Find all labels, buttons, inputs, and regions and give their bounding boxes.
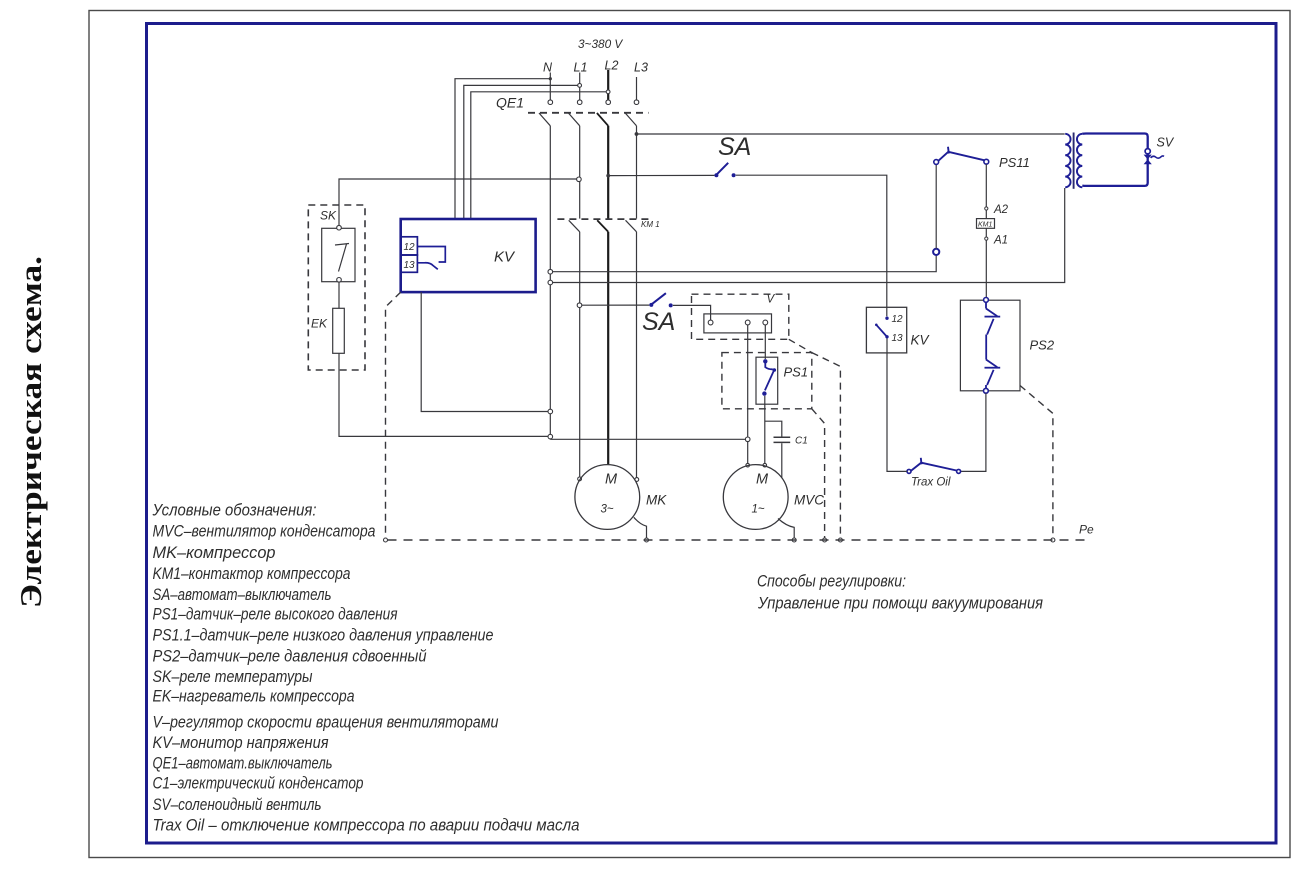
- regulator V label: [767, 294, 776, 306]
- wire feed to KV from L1: [464, 84, 582, 220]
- contact KV body right: [866, 307, 906, 353]
- node L3 label: [634, 61, 648, 75]
- svg-text:PS11: PS11: [999, 155, 1030, 170]
- dashed boundary PS1 top corner to ground bus: [812, 353, 843, 542]
- pressure switch PS2 label: [1030, 338, 1055, 353]
- switch SA upper: [714, 163, 735, 177]
- wire L3 to transformer primary: [637, 133, 1065, 135]
- relay SK dashed enclosure: [308, 205, 365, 370]
- legend line PS2: [153, 648, 427, 666]
- wire A1 to PS2: [985, 240, 987, 297]
- svg-text:SV: SV: [1157, 136, 1175, 150]
- contact KV pin 13: [885, 333, 903, 344]
- contactor KM1 trip link dashed: [557, 218, 652, 220]
- legend line SV: [153, 796, 322, 814]
- motor MVC phases label: [751, 504, 764, 516]
- node junction N and EK line: [548, 434, 553, 439]
- svg-text:L1: L1: [574, 61, 588, 75]
- switch SA lower: [649, 293, 672, 307]
- wire L2 vertical upper (bold): [607, 126, 609, 219]
- node junction L1 to SA2 feed: [577, 303, 582, 308]
- svg-text:13: 13: [404, 260, 416, 271]
- wire capacitor branch: [765, 421, 782, 436]
- wire L2 input stub (bold): [607, 70, 609, 100]
- page title vertical text: [13, 256, 48, 608]
- node N label: [543, 61, 553, 75]
- svg-text:MK: MK: [646, 493, 667, 508]
- monitor KV terminal box 12: [401, 237, 418, 255]
- wire SA to KV monitor contact: [736, 175, 887, 316]
- legend line QE1: [153, 755, 333, 773]
- breaker QE1 label: [496, 95, 524, 111]
- regulator V body: [704, 314, 772, 333]
- legend line Trax Oil: [153, 817, 580, 835]
- node junction N control line 1: [548, 269, 553, 274]
- legend heading: [152, 502, 317, 520]
- svg-text:L2: L2: [605, 59, 619, 73]
- legend line SK: [153, 668, 313, 686]
- node junction L3 to control feed: [635, 132, 639, 136]
- pressure switch PS11: [934, 147, 989, 165]
- svg-text:PS2: PS2: [1030, 338, 1055, 353]
- wire L3 vertical upper: [636, 126, 638, 219]
- svg-text:M: M: [605, 472, 618, 488]
- svg-text:1~: 1~: [751, 504, 764, 516]
- svg-text:EK–нагреватель компрессора: EK–нагреватель компрессора: [153, 688, 355, 706]
- relay SK body: [322, 228, 355, 281]
- legend line PS1: [153, 606, 398, 624]
- legend line V: [153, 714, 499, 732]
- wire feed to KV from N: [455, 79, 550, 219]
- heater EK body: [333, 308, 345, 353]
- relay SK label: [320, 209, 337, 223]
- svg-text:Электрическая схема.: Электрическая схема.: [13, 256, 48, 608]
- svg-text:SA: SA: [718, 133, 751, 161]
- svg-text:MVC–вентилятор конденсатора: MVC–вентилятор конденсатора: [153, 523, 376, 541]
- ground bus Pe dashed: [388, 539, 1091, 541]
- svg-text:Trax Oil – отключение компресс: Trax Oil – отключение компрессора по ава…: [153, 817, 580, 835]
- legend line MVC: [153, 523, 376, 541]
- svg-text:PS1–датчик–реле высокого давле: PS1–датчик–реле высокого давления: [153, 606, 398, 624]
- wire N input stub: [549, 73, 552, 100]
- monitor KV label: [494, 249, 516, 266]
- node L1 label: [574, 61, 588, 75]
- legend line KM1: [153, 565, 351, 583]
- wire feed to KV from L2: [471, 90, 610, 219]
- motor MVC letter M: [756, 472, 769, 488]
- svg-text:M: M: [756, 472, 769, 488]
- wire V terminal2 to junction: [747, 325, 749, 437]
- svg-text:QE1: QE1: [496, 95, 524, 111]
- svg-text:Trax Oil: Trax Oil: [911, 477, 951, 489]
- pressure switch PS1 label: [784, 365, 809, 380]
- motor MVC circle: [723, 465, 788, 530]
- legend line MK: [153, 544, 276, 562]
- pressure switch PS2 terminals: [984, 298, 989, 394]
- wire SA lower to regulator V: [673, 305, 711, 320]
- capacitor C1 label: [795, 436, 808, 447]
- svg-text:KM1: KM1: [978, 222, 993, 229]
- pressure switch PS1 body: [756, 357, 778, 404]
- wire N feed to motor MVC junction: [550, 438, 745, 440]
- wire L1 vertical lower: [578, 232, 582, 481]
- note text Sposoby: [757, 573, 906, 591]
- wire control line 1 to PS11: [553, 255, 937, 272]
- heater EK label: [311, 317, 328, 331]
- pin A2 label: [993, 204, 1009, 216]
- monitor KV body: [401, 219, 536, 292]
- wire L2 vertical lower (bold): [607, 232, 609, 465]
- svg-text:N: N: [543, 61, 553, 75]
- solenoid valve SV symbol: [1144, 149, 1164, 165]
- relay SK terminals: [337, 225, 342, 282]
- breaker QE1 terminals: [548, 100, 639, 105]
- wire capacitor to motor MVC: [781, 443, 783, 478]
- wire V terminal3 to PS1: [764, 325, 766, 359]
- wire control line 2 to transformer: [553, 188, 1065, 283]
- wire EK down to N junction: [339, 353, 548, 436]
- switch SA upper label: [718, 133, 751, 161]
- wire SK branch to L1: [339, 177, 581, 225]
- dashed boundary PS1 bottom corner to ground bus: [812, 409, 827, 542]
- pressure switch PS1 contact: [762, 359, 776, 396]
- ground bus Pe label: [1079, 523, 1094, 537]
- regulator V terminal 2: [745, 320, 750, 325]
- connector bold circle on PS11 branch: [933, 249, 939, 255]
- wire Trax Oil to KV contact 13: [887, 339, 907, 472]
- svg-text:C1–электрический конденсатор: C1–электрический конденсатор: [153, 775, 364, 793]
- svg-text:SK: SK: [320, 209, 337, 223]
- svg-text:L3: L3: [634, 61, 648, 75]
- svg-text:A1: A1: [993, 235, 1008, 247]
- wire PS2 to Trax Oil: [961, 393, 986, 471]
- breaker QE1 pole blades: [539, 113, 637, 126]
- regulator V terminal 3: [763, 320, 768, 325]
- wire SK to EK: [338, 282, 340, 308]
- svg-text:V: V: [767, 294, 776, 306]
- node L2 label: [605, 59, 619, 73]
- wire junction to motor MVC: [746, 442, 750, 467]
- contactor KM1 pole blades: [569, 220, 637, 232]
- switch SA lower label: [642, 308, 675, 336]
- svg-text:EK: EK: [311, 317, 328, 331]
- monitor KV internal contact blade: [417, 263, 437, 270]
- monitor KV terminal box 13: [401, 255, 418, 272]
- wire L3 vertical lower: [635, 232, 639, 482]
- dashed boundary KV to ground bus: [384, 292, 401, 542]
- wire connector to PS11: [935, 164, 937, 248]
- svg-text:V–регулятор скорости вращения: V–регулятор скорости вращения вентилятор…: [153, 714, 499, 732]
- breaker QE1 trip link dashed: [528, 112, 649, 114]
- wire secondary loop to SV: [1082, 134, 1147, 186]
- svg-text:PS2–датчик–реле давления сдвое: PS2–датчик–реле давления сдвоенный: [153, 648, 427, 666]
- svg-text:SA: SA: [642, 308, 675, 336]
- svg-text:KV: KV: [494, 249, 516, 266]
- wire A2 to coil: [985, 210, 987, 218]
- motor MK label: [646, 493, 667, 508]
- svg-text:3~380 V: 3~380 V: [578, 37, 623, 51]
- svg-text:12: 12: [404, 242, 416, 253]
- coil KM1 body: [977, 219, 995, 229]
- legend line EK: [153, 688, 355, 706]
- wire coil to A1: [985, 228, 988, 240]
- capacitor C1: [774, 437, 791, 442]
- note text Upravlenie: [757, 595, 1043, 613]
- transformer primary coil: [1065, 134, 1070, 187]
- regulator V terminal 1: [708, 320, 713, 325]
- contact KV right label: [911, 333, 931, 348]
- solenoid valve SV label: [1157, 136, 1175, 150]
- svg-text:3~: 3~: [600, 504, 613, 516]
- motor MK circle: [575, 465, 640, 530]
- svg-text:Управление при помощи вакуумир: Управление при помощи вакуумирования: [757, 595, 1043, 613]
- svg-text:SA–автомат–выключатель: SA–автомат–выключатель: [153, 586, 332, 604]
- svg-text:MK–компрессор: MK–компрессор: [153, 544, 276, 562]
- relay SK contact: [335, 244, 349, 272]
- svg-text:Pe: Pe: [1079, 523, 1094, 537]
- wire PS1 to motor MVC: [763, 396, 767, 467]
- svg-text:PS1: PS1: [784, 365, 809, 380]
- transformer core: [1073, 133, 1075, 189]
- node junction L2 to SA feed: [606, 174, 610, 178]
- wire L3 input stub: [636, 77, 638, 100]
- pressure switch PS1 dashed enclosure: [722, 353, 812, 409]
- svg-text:Условные обозначения:: Условные обозначения:: [152, 502, 317, 520]
- switch Trax Oil label: [911, 477, 951, 489]
- motor MVC label: [794, 493, 824, 508]
- contact KV pin 12: [885, 314, 903, 325]
- transformer secondary coil: [1077, 134, 1082, 187]
- pressure switch PS11 label: [999, 155, 1030, 170]
- svg-text:A2: A2: [993, 204, 1009, 216]
- svg-text:PS1.1–датчик–реле низкого давл: PS1.1–датчик–реле низкого давления управ…: [153, 627, 494, 645]
- node junction N control line 2: [548, 280, 553, 285]
- svg-text:KV–монитор напряжения: KV–монитор напряжения: [153, 734, 329, 752]
- legend line KV: [153, 734, 329, 752]
- switch Trax Oil: [907, 458, 961, 474]
- dashed boundary V box to PS1 box: [789, 339, 812, 352]
- contactor KM1 label: [641, 220, 660, 229]
- label 3~380V supply: [578, 37, 623, 51]
- wire KV bottom to N line: [421, 292, 552, 414]
- svg-text:KM 1: KM 1: [641, 220, 660, 229]
- svg-text:KM1–контактор компрессора: KM1–контактор компрессора: [153, 565, 351, 583]
- svg-text:QE1–автомат.выключатель: QE1–автомат.выключатель: [153, 755, 333, 773]
- wire L1 to switch SA lower: [582, 304, 650, 306]
- wire PS11 to coil A2: [985, 164, 988, 210]
- regulator V dashed enclosure: [692, 294, 789, 339]
- legend line PS1.1: [153, 627, 494, 645]
- motor MK letter M: [605, 472, 618, 488]
- node junction MVC feed: [745, 437, 750, 442]
- wire L1 input stub: [579, 73, 581, 100]
- pressure switch PS2 contact 1: [985, 302, 1001, 357]
- svg-text:C1: C1: [795, 436, 808, 447]
- svg-text:13: 13: [892, 333, 904, 344]
- svg-text:SV–соленоидный вентиль: SV–соленоидный вентиль: [153, 796, 322, 814]
- pressure switch PS2 body: [960, 300, 1020, 391]
- legend line C1: [153, 775, 364, 793]
- pin A1 label: [993, 235, 1008, 247]
- svg-text:Способы регулировки:: Способы регулировки:: [757, 573, 906, 591]
- legend line SA: [153, 586, 332, 604]
- svg-text:SK–реле температуры: SK–реле температуры: [153, 668, 313, 686]
- monitor KV internal hook wire: [417, 247, 445, 263]
- motor MVC ground wire: [778, 519, 796, 543]
- pressure switch PS2 contact 2: [985, 358, 1001, 389]
- motor MK phases label: [600, 504, 613, 516]
- motor MK ground wire: [634, 517, 649, 542]
- svg-text:KV: KV: [911, 333, 931, 348]
- svg-text:12: 12: [892, 314, 904, 325]
- dashed boundary PS2 to ground bus: [1020, 386, 1055, 543]
- wire N vertical: [549, 126, 551, 440]
- contact KV blade: [875, 324, 887, 337]
- wire L1 vertical upper: [579, 126, 581, 219]
- svg-text:MVC: MVC: [794, 493, 824, 508]
- wire L2 to switch SA: [608, 174, 714, 176]
